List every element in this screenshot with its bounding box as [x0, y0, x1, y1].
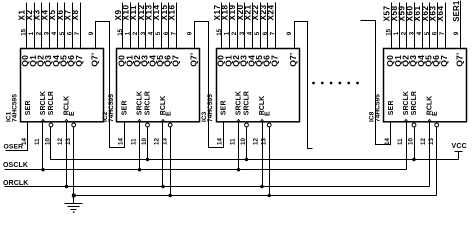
svg-text:3: 3	[408, 31, 415, 35]
svg-text:7: 7	[171, 31, 178, 35]
svg-text:Q7’: Q7’	[288, 53, 298, 67]
svg-text:SRCLK: SRCLK	[403, 91, 410, 115]
svg-text:OSER: OSER	[4, 144, 24, 151]
svg-text:2: 2	[132, 31, 139, 35]
svg-text:4: 4	[51, 31, 58, 35]
svg-text:3: 3	[140, 31, 147, 35]
svg-text:2: 2	[231, 31, 238, 35]
svg-text:13: 13	[65, 138, 72, 145]
svg-text:7: 7	[439, 31, 446, 35]
svg-text:Q7: Q7	[170, 55, 180, 67]
svg-text:Q7’: Q7’	[188, 53, 198, 67]
svg-text:6: 6	[431, 31, 438, 35]
svg-text:13: 13	[162, 138, 169, 145]
svg-text:13: 13	[428, 138, 435, 145]
svg-text:VCC: VCC	[452, 143, 467, 150]
svg-text:6: 6	[163, 31, 170, 35]
svg-text:4: 4	[148, 31, 155, 35]
svg-text:X64: X64	[436, 5, 445, 21]
svg-text:6: 6	[262, 31, 269, 35]
svg-text:9: 9	[88, 31, 95, 35]
svg-text:SER: SER	[220, 100, 227, 115]
svg-text:Q7: Q7	[74, 55, 84, 67]
svg-text:2: 2	[36, 31, 43, 35]
svg-text:X16: X16	[168, 4, 177, 20]
svg-text:SRCLR: SRCLR	[244, 91, 251, 115]
svg-text:SER: SER	[25, 100, 32, 115]
svg-text:15: 15	[117, 28, 124, 35]
svg-text:5: 5	[59, 31, 66, 35]
svg-text:SRCLK: SRCLK	[137, 91, 144, 115]
svg-text:1: 1	[28, 31, 35, 35]
svg-text:14: 14	[217, 138, 224, 145]
svg-text:9: 9	[187, 31, 194, 35]
svg-text:15: 15	[20, 28, 27, 35]
svg-text:1: 1	[224, 31, 231, 35]
svg-text:9: 9	[453, 31, 460, 35]
svg-text:4: 4	[247, 31, 254, 35]
svg-text:E: E	[265, 111, 272, 116]
svg-text:SER1: SER1	[452, 0, 461, 22]
svg-text:13: 13	[261, 138, 268, 145]
svg-text:SER: SER	[121, 100, 128, 115]
svg-text:12: 12	[420, 138, 427, 145]
svg-text:5: 5	[155, 31, 162, 35]
svg-text:SRCLR: SRCLR	[411, 91, 418, 115]
svg-text:12: 12	[154, 138, 161, 145]
svg-text:14: 14	[118, 138, 125, 145]
svg-text:11: 11	[229, 138, 236, 145]
svg-text:Q7: Q7	[439, 55, 449, 67]
svg-text:7: 7	[74, 31, 81, 35]
svg-text:3: 3	[43, 31, 50, 35]
svg-text:15: 15	[216, 28, 223, 35]
svg-text:SER: SER	[388, 100, 395, 115]
svg-text:SRCLK: SRCLK	[40, 91, 47, 115]
svg-text:9: 9	[286, 31, 293, 35]
svg-text:74HC595: 74HC595	[12, 94, 19, 122]
svg-text:1: 1	[125, 31, 132, 35]
svg-text:ORCLK: ORCLK	[3, 180, 28, 187]
svg-text:6: 6	[66, 31, 73, 35]
svg-text:11: 11	[34, 138, 41, 145]
svg-text:OSCLK: OSCLK	[3, 162, 28, 169]
svg-text:E: E	[69, 111, 76, 116]
svg-text:2: 2	[401, 31, 408, 35]
svg-text:11: 11	[130, 138, 137, 145]
svg-text:7: 7	[270, 31, 277, 35]
svg-text:X8: X8	[71, 9, 80, 20]
svg-text:E: E	[166, 111, 173, 116]
svg-text:10: 10	[408, 138, 415, 145]
svg-text:11: 11	[397, 138, 404, 145]
svg-text:X24: X24	[267, 4, 276, 20]
svg-text:4: 4	[416, 31, 423, 35]
svg-text:SRCLR: SRCLR	[145, 91, 152, 115]
svg-text:SRCLR: SRCLR	[48, 91, 55, 115]
svg-text:15: 15	[385, 28, 392, 35]
svg-text:3: 3	[239, 31, 246, 35]
svg-text:Q7’: Q7’	[90, 53, 100, 67]
svg-text:12: 12	[57, 138, 64, 145]
svg-text:E: E	[432, 111, 439, 116]
svg-text:5: 5	[424, 31, 431, 35]
svg-text:1: 1	[393, 31, 400, 35]
svg-text:5: 5	[254, 31, 261, 35]
svg-text:Q7: Q7	[269, 55, 279, 67]
svg-text:Q7’: Q7’	[454, 53, 464, 67]
svg-text:SRCLK: SRCLK	[236, 91, 243, 115]
svg-text:12: 12	[253, 138, 260, 145]
